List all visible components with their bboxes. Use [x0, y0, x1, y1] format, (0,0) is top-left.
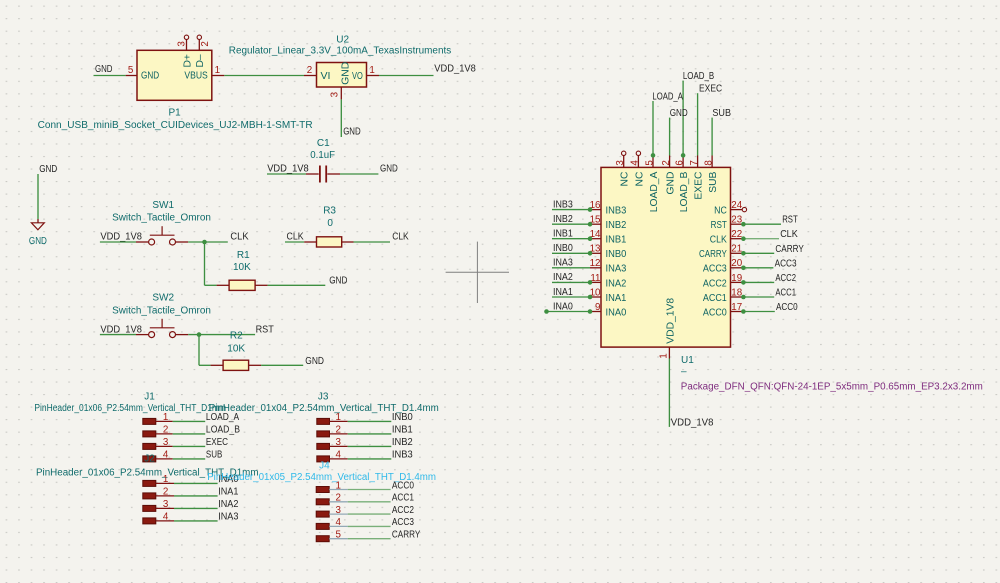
regulator U2 [229, 35, 451, 100]
svg-text:INB3: INB3 [392, 450, 413, 461]
svg-text:LOAD_B: LOAD_B [683, 71, 715, 82]
SW1 pin 1 [136, 241, 148, 243]
svg-text:ACC2: ACC2 [775, 273, 796, 284]
R1 pin 2 [255, 284, 268, 286]
wire J3 pin 4 [348, 458, 392, 460]
J4 pin 5 [316, 530, 348, 542]
switch SW1 [112, 200, 211, 245]
U2 pin 1 (VO) [367, 75, 380, 77]
U1 pin 3 (NC) [615, 151, 631, 186]
J1 pin 1 [143, 412, 173, 424]
wire to R2 left [199, 364, 211, 366]
svg-text:GND: GND [670, 108, 688, 119]
junction INB0 pin [588, 251, 593, 256]
svg-text:VDD_1V8: VDD_1V8 [267, 163, 309, 174]
svg-text:1: 1 [215, 65, 220, 76]
svg-text:3: 3 [163, 499, 169, 510]
U2 pin 2 (VI) [304, 75, 317, 77]
P1 pin 2 (D-) unconnected [198, 40, 200, 51]
svg-text:2: 2 [661, 160, 672, 165]
J4 pin 2 [316, 493, 348, 505]
svg-text:INA2: INA2 [553, 272, 573, 283]
U2 pin 3 (GND) [340, 87, 342, 99]
svg-text:1: 1 [335, 412, 340, 423]
wire INA3 to U1 [552, 267, 590, 269]
switch SW2 [112, 293, 211, 338]
wire J1 pin 4 [173, 458, 206, 460]
U1 pin 12 (INA3) [590, 258, 627, 275]
svg-text:R2: R2 [230, 331, 243, 342]
svg-text:1: 1 [163, 412, 168, 423]
svg-text:VBUS: VBUS [184, 70, 208, 81]
wire J2 pin 2 [174, 495, 218, 497]
U1 pin 18 (ACC1) [703, 287, 743, 304]
wire INB2 to U1 [552, 223, 590, 225]
svg-text:SW1: SW1 [152, 200, 174, 211]
R2 pin 1 [211, 364, 224, 366]
svg-text:EXEC: EXEC [694, 171, 705, 200]
svg-text:ACC1: ACC1 [775, 288, 796, 299]
svg-text:CLK: CLK [392, 231, 409, 242]
svg-text:GND: GND [305, 356, 324, 367]
svg-text:Conn_USB_miniB_Socket_CUIDevic: Conn_USB_miniB_Socket_CUIDevices_UJ2-MBH… [38, 120, 313, 131]
SW2 contact right [170, 332, 176, 338]
wire R3 to CLK [354, 241, 391, 243]
C1 pin 1 [306, 173, 319, 175]
svg-text:SUB: SUB [708, 171, 719, 192]
R3 pin 1 [304, 241, 316, 243]
SW1 contact right [170, 239, 176, 245]
svg-text:CARRY: CARRY [392, 530, 421, 541]
R2 pin 2 [249, 364, 262, 366]
pin header J2 [0, 0, 259, 524]
J3 pin 4 [317, 450, 348, 462]
resistor R3 [304, 205, 353, 247]
svg-text:ACC1: ACC1 [703, 293, 727, 304]
U1 pin 7 (EXEC) [689, 156, 705, 200]
svg-text:2: 2 [163, 487, 168, 498]
SW2 pin 2 [176, 334, 189, 336]
svg-text:12: 12 [590, 258, 601, 269]
svg-text:INB3: INB3 [606, 206, 627, 217]
U1 pin 5 (LOAD_A) [644, 156, 660, 213]
svg-text:ACC1: ACC1 [392, 493, 414, 504]
SW2 contact left [149, 332, 155, 338]
svg-text:10K: 10K [233, 262, 251, 273]
wire LOAD_B to U1 top [682, 81, 684, 156]
wire down to R2 [198, 335, 200, 366]
svg-text:INB0: INB0 [606, 249, 627, 260]
wire J3 pin 2 [348, 433, 392, 435]
svg-text:24: 24 [731, 200, 742, 211]
R2 body [223, 360, 249, 370]
svg-text:17: 17 [731, 302, 742, 313]
svg-text:3: 3 [329, 91, 340, 97]
wire INB0 to U1 [552, 252, 590, 254]
svg-text:ACC2: ACC2 [392, 505, 414, 516]
U1 pin 9 (INA0) [590, 302, 627, 319]
U1 pin 20 (ACC3) [703, 258, 743, 275]
U1 pin 8 (SUB) [703, 156, 719, 193]
wire J1 pin 1 [173, 420, 206, 422]
svg-text:1: 1 [335, 480, 340, 491]
R1 body [229, 280, 255, 290]
wire J1 pin 3 [173, 445, 206, 447]
U1 pin 21 (CARRY) [699, 244, 742, 261]
wire J4 pin 5 [348, 538, 391, 540]
wire U1 to ACC3 [743, 267, 773, 269]
svg-text:9: 9 [595, 302, 600, 313]
svg-text:INA0: INA0 [553, 301, 573, 312]
svg-text:4: 4 [630, 160, 641, 166]
svg-text:INB0: INB0 [392, 412, 413, 423]
wire R2 to GND [261, 364, 303, 366]
wire J1 pin 2 [173, 433, 206, 435]
U1 pin 15 (INB2) [590, 215, 627, 232]
SW1 pin 2 [176, 241, 189, 243]
wire GND flag [37, 174, 39, 219]
wire J2 pin 1 [174, 482, 218, 484]
svg-text:INB3: INB3 [553, 199, 573, 210]
wire J4 pin 2 [348, 501, 391, 503]
junction INA1 pin [588, 295, 593, 300]
junction RST pin [741, 222, 746, 227]
wire INA1 to U1 [552, 296, 590, 298]
svg-text:INA1: INA1 [218, 487, 239, 498]
svg-text:VDD_1V8: VDD_1V8 [434, 64, 476, 75]
wire J3 pin 1 [348, 420, 392, 422]
svg-text:INB0: INB0 [553, 243, 573, 254]
svg-text:U2: U2 [336, 35, 349, 46]
pin header J1 [34, 392, 240, 462]
wire SW2 to RST [188, 334, 255, 336]
wire J2 pin 4 [174, 520, 218, 522]
P1 pin 5 (GND) [126, 75, 137, 77]
svg-text:U1: U1 [681, 355, 694, 366]
svg-text:INA2: INA2 [606, 278, 627, 289]
junction INB3 pin [588, 207, 593, 212]
wire J4 pin 3 [348, 513, 391, 515]
svg-text:GND: GND [380, 163, 398, 174]
U1 pin 23 (RST) [711, 215, 743, 232]
svg-text:6: 6 [674, 160, 685, 166]
svg-text:INB2: INB2 [606, 220, 627, 231]
svg-text:SUB: SUB [206, 450, 223, 461]
crosshair marker [446, 242, 509, 303]
svg-text:GND: GND [39, 164, 57, 175]
capacitor C1 [306, 138, 340, 182]
J2 pin 4 [143, 512, 174, 524]
wire R1 to GND [268, 284, 326, 286]
resistor R2 [211, 331, 262, 371]
svg-text:INA1: INA1 [606, 293, 627, 304]
R1 pin 1 [217, 284, 230, 286]
svg-text:INA3: INA3 [606, 264, 627, 275]
wire INB3 to U1 [552, 209, 590, 211]
svg-text:ACC3: ACC3 [703, 264, 727, 275]
svg-text:GND: GND [95, 64, 113, 75]
junction INA0 left [544, 309, 549, 314]
junction SW2/R2 node [197, 332, 202, 337]
svg-text:4: 4 [163, 450, 169, 461]
svg-text:GND: GND [141, 70, 159, 81]
wire U1 to CLK [743, 238, 779, 240]
svg-text:P1: P1 [169, 108, 182, 119]
J2 pin 2 [143, 487, 174, 499]
svg-text:18: 18 [731, 287, 742, 298]
junction INA2 pin [588, 280, 593, 285]
svg-text:INB1: INB1 [392, 425, 413, 436]
svg-text:NC: NC [634, 171, 645, 186]
svg-text:0: 0 [327, 218, 333, 229]
junction INB1 pin [588, 236, 593, 241]
svg-text:Switch_Tactile_Omron: Switch_Tactile_Omron [112, 306, 211, 317]
U1 pin 22 (CLK) [710, 229, 743, 246]
svg-text:INA3: INA3 [553, 258, 573, 269]
svg-text:ACC3: ACC3 [392, 517, 414, 528]
svg-text:1: 1 [659, 353, 670, 358]
svg-text:D+: D+ [182, 54, 193, 67]
svg-text:2: 2 [335, 425, 340, 436]
junction SW1/R1 node [202, 240, 207, 245]
wire EXEC to U1 top [697, 93, 699, 155]
svg-text:Switch_Tactile_Omron: Switch_Tactile_Omron [112, 213, 211, 224]
U1 pin 14 (INB1) [590, 229, 627, 246]
svg-text:C1: C1 [317, 138, 330, 149]
svg-text:4: 4 [335, 517, 341, 528]
C1 right plate [325, 166, 327, 183]
svg-text:–: – [681, 367, 687, 378]
pin header J4 (selected) [207, 460, 436, 541]
svg-text:GND: GND [340, 62, 351, 85]
U1 pin 1 (VDD_1V8) [659, 298, 677, 359]
svg-text:EXEC: EXEC [206, 437, 228, 448]
svg-text:ACC3: ACC3 [775, 258, 797, 269]
junction ACC2 pin [741, 280, 746, 285]
P1 pin 3 (D+) unconnected [186, 40, 188, 51]
svg-text:LOAD_A: LOAD_A [649, 171, 660, 212]
U1 pin 11 (INA2) [590, 273, 627, 290]
svg-text:INB2: INB2 [553, 214, 573, 225]
U1 pin 2 (GND) [661, 156, 677, 195]
U1 pin 24 (NC) [714, 200, 747, 217]
wire VDD_1V8 to C1 [267, 173, 306, 175]
svg-text:EXEC: EXEC [699, 84, 722, 95]
svg-text:19: 19 [731, 273, 742, 284]
svg-text:VDD_1V8: VDD_1V8 [100, 324, 142, 335]
svg-text:CLK: CLK [780, 229, 798, 240]
svg-text:5: 5 [644, 160, 655, 166]
svg-text:LOAD_B: LOAD_B [679, 171, 690, 212]
svg-text:INA1: INA1 [553, 287, 573, 298]
svg-text:2: 2 [163, 425, 168, 436]
wire SW1 to CLK [188, 241, 228, 243]
svg-text:22: 22 [731, 229, 742, 240]
svg-text:INB1: INB1 [553, 229, 573, 240]
svg-text:GND: GND [329, 275, 347, 286]
wire GND to U1 top [669, 118, 671, 156]
svg-text:VDD_1V8: VDD_1V8 [665, 298, 676, 344]
svg-text:CARRY: CARRY [699, 249, 727, 260]
wire C1 to GND [340, 173, 378, 175]
wire VBUS P1 to U2 [224, 75, 304, 77]
wire J2 pin 3 [174, 507, 218, 509]
J3 pin 3 [317, 437, 348, 449]
wire VDD_1V8 to SW2 [100, 334, 136, 336]
wire J4 pin 1 [348, 489, 391, 491]
wire U1 to ACC2 [743, 281, 774, 283]
svg-text:SW2: SW2 [152, 293, 174, 304]
svg-text:4: 4 [163, 512, 169, 523]
U1 pin 16 (INB3) [590, 200, 627, 217]
resistor R1 [217, 250, 268, 290]
P1 body [137, 50, 212, 100]
junction ACC0 pin [741, 309, 746, 314]
svg-text:CLK: CLK [710, 235, 727, 246]
J3 pin 2 [317, 425, 348, 437]
svg-text:2: 2 [200, 41, 211, 46]
junction INA0 pin [588, 309, 593, 314]
wire to R1 left [205, 284, 217, 286]
U1 pin 4 (NC) [630, 151, 646, 186]
J4 pin 4 [316, 517, 348, 529]
svg-text:PinHeader_01x06_P2.54mm_Vertic: PinHeader_01x06_P2.54mm_Vertical_THT_D1m… [34, 403, 226, 414]
svg-text:J3: J3 [318, 392, 329, 403]
svg-text:VDD_1V8: VDD_1V8 [671, 417, 714, 428]
svg-text:5: 5 [335, 530, 341, 541]
svg-text:1: 1 [163, 474, 168, 485]
svg-text:CARRY: CARRY [775, 244, 804, 255]
svg-text:0.1uF: 0.1uF [310, 150, 335, 161]
wire INA0 to U1 [547, 311, 591, 313]
wire U1 to ACC0 [743, 311, 774, 313]
junction ACC3 pin [741, 266, 746, 271]
junction LOAD_A pin [651, 153, 656, 158]
SW2 pin 1 [136, 334, 148, 336]
wire INA2 to U1 [552, 281, 590, 283]
svg-text:CLK: CLK [230, 231, 249, 242]
wire GND to P1 pin5 [94, 75, 126, 77]
svg-text:4: 4 [335, 450, 341, 461]
SW1 actuator [150, 234, 175, 236]
svg-text:LOAD_B: LOAD_B [206, 425, 240, 436]
C1 left plate [319, 166, 321, 183]
U1 pin 19 (ACC2) [703, 273, 742, 290]
svg-text:INB1: INB1 [606, 235, 627, 246]
wire J3 pin 3 [348, 445, 392, 447]
svg-text:2: 2 [335, 493, 340, 504]
svg-text:NC: NC [620, 171, 631, 186]
svg-text:3: 3 [177, 41, 188, 47]
svg-text:INA3: INA3 [218, 512, 239, 523]
svg-text:GND: GND [666, 172, 677, 195]
svg-text:LOAD_A: LOAD_A [652, 92, 683, 103]
wire CLK to R3 [285, 241, 304, 243]
wire U1 pin1 to VDD_1V8 [668, 359, 670, 427]
svg-text:GND: GND [29, 236, 47, 247]
svg-text:VDD_1V8: VDD_1V8 [100, 231, 142, 242]
svg-text:INB2: INB2 [392, 437, 413, 448]
junction CLK pin [741, 236, 746, 241]
svg-text:21: 21 [731, 244, 742, 255]
svg-text:CLK: CLK [287, 231, 304, 242]
svg-text:ACC0: ACC0 [703, 307, 727, 318]
svg-text:10K: 10K [227, 344, 245, 355]
svg-text:VO: VO [352, 71, 363, 82]
svg-text:RST: RST [256, 324, 274, 335]
wire J4 pin 4 [348, 525, 391, 527]
J1 pin 4 [143, 450, 173, 462]
wire U1 to CARRY [743, 252, 774, 254]
svg-text:7: 7 [689, 160, 700, 165]
svg-text:23: 23 [731, 215, 742, 226]
wire SUB to U1 top [711, 118, 713, 156]
U1 pin 6 (LOAD_B) [674, 156, 690, 213]
wire U1 to RST [743, 223, 781, 225]
junction INB2 pin [588, 222, 593, 227]
svg-text:RST: RST [711, 220, 728, 231]
J4 pin 3 [316, 505, 348, 517]
svg-text:1: 1 [369, 65, 374, 76]
SW1 contact left [149, 239, 155, 245]
J1 pin 3 [143, 437, 173, 449]
svg-text:3: 3 [335, 505, 341, 516]
svg-text:GND: GND [343, 127, 361, 138]
J4 pin 1 [316, 480, 348, 492]
wire LOAD_A to U1 top [652, 101, 654, 155]
svg-text:SUB: SUB [712, 108, 731, 119]
svg-text:R1: R1 [237, 250, 250, 261]
SW2 actuator [150, 327, 175, 329]
svg-text:J1: J1 [144, 392, 155, 403]
svg-text:Package_DFN_QFN:QFN-24-1EP_5x5: Package_DFN_QFN:QFN-24-1EP_5x5mm_P0.65mm… [681, 381, 983, 392]
svg-text:5: 5 [128, 65, 134, 76]
wire VDD_1V8 to SW1 [100, 241, 136, 243]
svg-text:J2: J2 [144, 454, 155, 465]
svg-text:ACC2: ACC2 [703, 278, 727, 289]
pin header J3 [209, 392, 439, 462]
svg-text:NC: NC [714, 206, 727, 217]
J2 pin 3 [143, 499, 174, 511]
J1 pin 2 [143, 425, 173, 437]
svg-text:INA2: INA2 [218, 499, 239, 510]
svg-text:ACC0: ACC0 [392, 480, 414, 491]
J3 pin 1 [317, 412, 348, 424]
svg-text:8: 8 [703, 160, 714, 166]
svg-text:D–: D– [195, 54, 206, 67]
U1 pin 13 (INB0) [590, 244, 627, 261]
wire INB1 to U1 [552, 238, 590, 240]
svg-text:3: 3 [163, 437, 169, 448]
junction LOAD_B pin [681, 153, 686, 158]
R3 pin 2 [342, 241, 354, 243]
svg-text:Regulator_Linear_3.3V_100mA_Te: Regulator_Linear_3.3V_100mA_TexasInstrum… [229, 45, 451, 56]
wire down to R1 [204, 242, 206, 285]
svg-text:2: 2 [307, 65, 312, 76]
C1 pin 2 [327, 173, 340, 175]
wire VO to VDD_1V8 [379, 75, 434, 77]
P1 pin 1 (VBUS) [212, 75, 225, 77]
IC U1 [590, 151, 983, 392]
wire U2 GND down [340, 99, 342, 137]
junction ACC1 pin [741, 295, 746, 300]
junction CARRY pin [741, 251, 746, 256]
svg-text:20: 20 [731, 258, 742, 269]
wire U1 to ACC1 [743, 296, 774, 298]
J2 pin 1 [143, 474, 174, 486]
svg-text:ACC0: ACC0 [776, 302, 798, 313]
svg-text:RST: RST [782, 215, 798, 226]
